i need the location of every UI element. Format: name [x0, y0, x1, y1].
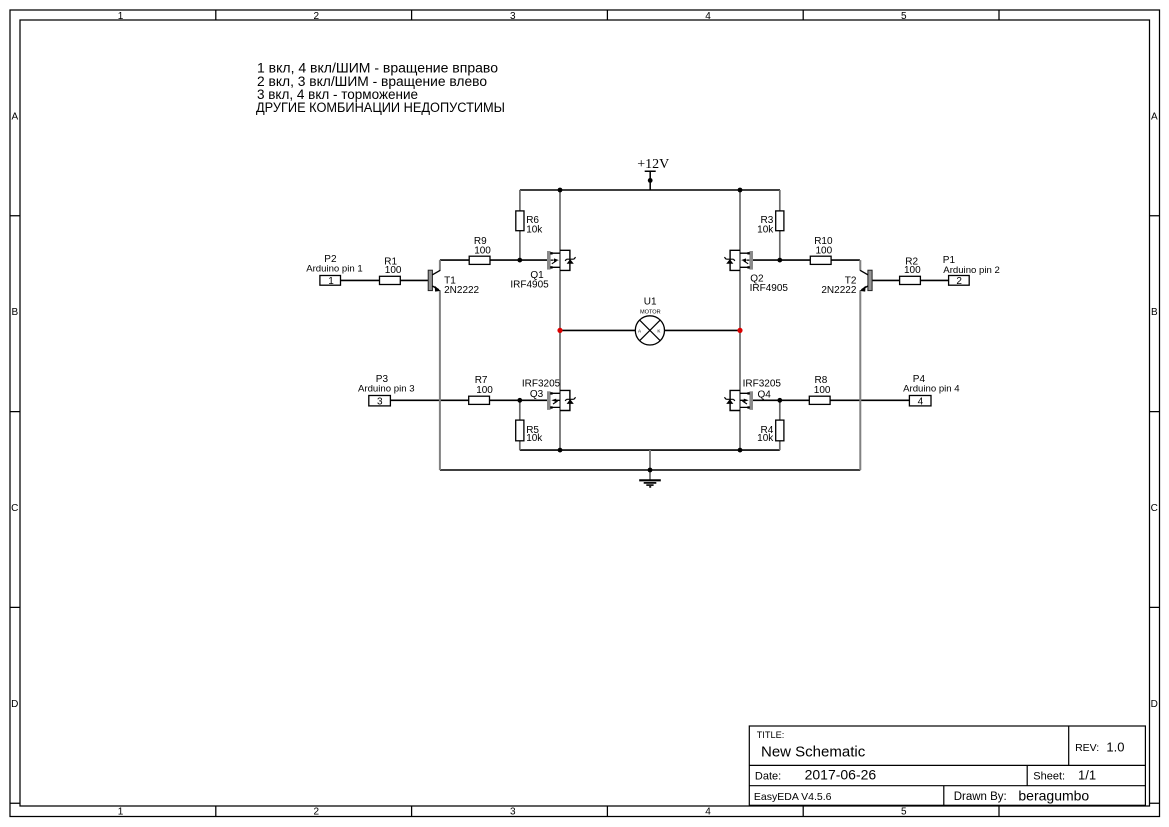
svg-text:100: 100 — [476, 385, 493, 396]
svg-text:B: B — [1151, 307, 1158, 318]
wire R5 leads — [519, 400, 521, 450]
wire R4 leads — [779, 400, 781, 450]
svg-text:EasyEDA V4.5.6: EasyEDA V4.5.6 — [754, 791, 832, 803]
svg-text:B: B — [11, 307, 18, 318]
svg-text:10k: 10k — [757, 224, 774, 235]
connector P3 — [358, 374, 415, 407]
svg-text:1: 1 — [328, 276, 334, 287]
resistor R2 — [900, 257, 922, 285]
svg-text:MOTOR: MOTOR — [640, 309, 661, 315]
svg-text:3: 3 — [510, 807, 516, 818]
pin ground stub — [649, 450, 651, 480]
pin Q1 drain-source vertical — [559, 190, 561, 450]
svg-text:10k: 10k — [757, 433, 774, 444]
svg-text:D: D — [11, 699, 18, 710]
mosfet Q3 IRF3205 — [522, 379, 576, 411]
wire P4 to Q4 gate — [753, 399, 909, 401]
TITLE BLOCK — [749, 726, 1145, 805]
resistor R5 — [516, 420, 544, 444]
svg-text:TITLE:: TITLE: — [757, 730, 785, 740]
svg-text:4: 4 — [918, 396, 924, 407]
svg-text:Q4: Q4 — [758, 389, 772, 400]
svg-text:Arduino pin 4: Arduino pin 4 — [903, 384, 960, 395]
svg-text:2: 2 — [314, 11, 320, 22]
wire motor net — [560, 329, 740, 331]
svg-text:2: 2 — [956, 276, 962, 287]
svg-text:Sheet:: Sheet: — [1033, 771, 1065, 783]
wire P2 base net — [340, 279, 429, 281]
wire left gate net (T1 collector to Q1 gate) — [440, 259, 548, 261]
wire source rail y450 — [520, 449, 780, 451]
svg-text:ДРУГИЕ КОМБИНАЦИИ НЕДОПУСТИМЫ: ДРУГИЕ КОМБИНАЦИИ НЕДОПУСТИМЫ — [256, 100, 505, 116]
svg-text:1: 1 — [118, 11, 124, 22]
CIRCUIT — [306, 157, 1000, 487]
resistor R1 — [380, 257, 402, 285]
svg-text:U1: U1 — [644, 296, 657, 307]
svg-text:Arduino pin 2: Arduino pin 2 — [943, 265, 1000, 276]
svg-text:1/1: 1/1 — [1078, 768, 1096, 783]
resistor R4 — [757, 420, 784, 444]
NOTE TEXT — [256, 61, 505, 116]
svg-text:IRF4905: IRF4905 — [510, 280, 549, 291]
svg-text:C: C — [1151, 503, 1158, 514]
svg-text:Arduino pin 1: Arduino pin 1 — [306, 264, 363, 275]
svg-text:3: 3 — [510, 11, 516, 22]
resistor R8 — [809, 375, 831, 404]
wire top +12V rail — [520, 189, 780, 191]
junction dots — [517, 178, 782, 472]
connector P2 — [306, 254, 363, 287]
svg-text:4: 4 — [705, 11, 711, 22]
connector P1 — [943, 255, 1000, 287]
pin T2 emitter vertical — [859, 290, 861, 470]
svg-text:100: 100 — [816, 246, 833, 257]
resistor R10 — [810, 236, 833, 264]
svg-text:beragumbo: beragumbo — [1018, 788, 1089, 804]
pin Q2 drain-source vertical — [739, 190, 741, 450]
svg-text:100: 100 — [904, 265, 921, 276]
svg-text:100: 100 — [814, 385, 831, 396]
wire R3 leads — [779, 190, 781, 260]
power flag +12V — [637, 157, 669, 190]
wire right gate net (T2 collector to Q2 gate) — [753, 259, 860, 261]
svg-text:Arduino pin 3: Arduino pin 3 — [358, 384, 415, 395]
svg-text:Drawn By:: Drawn By: — [954, 791, 1007, 803]
svg-text:3: 3 — [377, 396, 383, 407]
svg-text:2N2222: 2N2222 — [444, 285, 479, 296]
svg-text:5: 5 — [901, 11, 907, 22]
svg-text:Date:: Date: — [755, 770, 781, 782]
pin T1 collector stub — [439, 260, 441, 271]
wire P3 to Q3 gate — [391, 399, 548, 401]
svg-text:2N2222: 2N2222 — [821, 285, 856, 296]
wire emitter/ground rail y470 — [440, 469, 860, 471]
mosfet Q1 IRF4905 — [510, 250, 575, 290]
motor U1 — [635, 296, 664, 345]
red junction dots (motor net) — [557, 328, 742, 333]
transistor T1 2N2222 — [428, 270, 479, 296]
wire P1 base net — [872, 279, 949, 281]
svg-text:IRF3205: IRF3205 — [743, 379, 782, 390]
ground — [639, 480, 661, 487]
resistor R3 — [757, 211, 784, 235]
svg-text:4: 4 — [705, 807, 711, 818]
mosfet Q2 IRF4905 — [724, 250, 788, 294]
svg-text:1: 1 — [118, 807, 124, 818]
svg-text:5: 5 — [901, 807, 907, 818]
wire R6 leads — [519, 190, 521, 260]
resistor R9 — [469, 236, 491, 264]
svg-text:+12V: +12V — [637, 157, 669, 172]
svg-text:A: A — [11, 111, 18, 122]
connector P4 — [903, 374, 960, 407]
svg-text:10k: 10k — [526, 433, 543, 444]
svg-text:IRF4905: IRF4905 — [750, 283, 789, 294]
pin T2 collector stub — [859, 260, 861, 271]
svg-text:10k: 10k — [526, 224, 543, 235]
svg-text:A: A — [1151, 111, 1158, 122]
transistor T2 2N2222 — [821, 270, 872, 296]
svg-text:2017-06-26: 2017-06-26 — [805, 766, 877, 782]
svg-text:REV:: REV: — [1075, 742, 1099, 754]
mosfet Q4 IRF3205 — [724, 379, 781, 411]
svg-text:1.0: 1.0 — [1106, 740, 1124, 755]
pin T1 emitter vertical — [439, 290, 441, 470]
svg-text:2: 2 — [314, 807, 320, 818]
svg-text:D: D — [1151, 699, 1158, 710]
svg-text:Q3: Q3 — [530, 389, 544, 400]
svg-text:100: 100 — [474, 246, 491, 257]
svg-text:C: C — [11, 503, 18, 514]
resistor R6 — [516, 211, 544, 235]
svg-text:New Schematic: New Schematic — [761, 744, 866, 761]
svg-text:100: 100 — [385, 265, 402, 276]
resistor R7 — [469, 375, 494, 404]
